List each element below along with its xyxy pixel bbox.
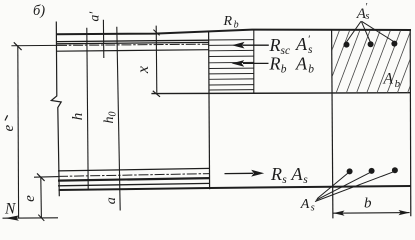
dimension line a' <box>102 20 104 58</box>
bottom rebar dot 3 <box>392 167 398 173</box>
top rebar bar line 1 <box>57 40 209 41</box>
top rebar bar line 2 <box>57 42 209 43</box>
top rebar dot 2 <box>368 41 374 47</box>
wire top edge of beam <box>56 30 411 35</box>
dimension b right arrow <box>399 210 410 215</box>
svg-text:A: A <box>300 197 310 212</box>
label Rb Ab <box>269 54 315 76</box>
svg-text:b: b <box>308 64 314 76</box>
svg-text:R: R <box>223 14 233 29</box>
force N baseline <box>3 217 59 219</box>
svg-text:N: N <box>4 201 17 218</box>
svg-text:s: s <box>311 203 315 214</box>
dimension line e vertical <box>40 177 43 218</box>
top rebar centroid dash-dot axis <box>11 44 57 46</box>
wire bottom edge of beam <box>59 186 412 190</box>
svg-text:A: A <box>295 34 308 54</box>
svg-text:A: A <box>291 164 304 184</box>
force arrow Rb Ab (left pointing) <box>232 60 269 67</box>
label Rs As <box>270 164 308 186</box>
section cut vertical line <box>209 31 210 190</box>
svg-text:R: R <box>270 164 282 184</box>
tick at top of e' <box>14 42 22 50</box>
svg-text:s: s <box>365 11 369 22</box>
svg-text:s: s <box>308 44 313 56</box>
svg-text:R: R <box>269 35 281 55</box>
bottom rebar dot 2 <box>369 168 375 174</box>
svg-text:e: e <box>22 195 38 202</box>
svg-text:A: A <box>295 54 308 74</box>
wire neutral axis depth line <box>151 92 411 95</box>
cross-section left edge <box>332 30 333 218</box>
force arrow Rsc A's (left pointing) <box>232 42 269 49</box>
cross-section right edge <box>409 30 412 216</box>
bottom rebar dot 1 <box>347 168 353 174</box>
svg-text:A: A <box>383 71 394 88</box>
svg-text:b: b <box>234 20 239 31</box>
bottom rebar bar line 4 <box>58 183 210 185</box>
force arrow Rs As (right pointing) <box>225 170 265 177</box>
dimension line x <box>155 26 158 93</box>
leader lines from As to bottom dots <box>315 172 394 202</box>
svg-text:h: h <box>70 113 86 121</box>
force N arrowhead <box>5 215 19 220</box>
top rebar dot 3 <box>391 41 397 47</box>
svg-text:a: a <box>104 197 119 204</box>
top rebar dot 1 <box>344 42 350 48</box>
top rebar bar line 3 <box>57 50 209 52</box>
beam left edge with break zigzag <box>51 22 61 197</box>
bottom rebar centroid dash-dot axis <box>58 174 210 177</box>
shelf line for e dimension <box>34 176 59 179</box>
svg-text:R: R <box>269 54 281 74</box>
svg-text:б): б) <box>33 3 45 19</box>
tick at top of e <box>37 173 45 181</box>
tick at bottom of x line <box>153 91 160 97</box>
dimension line e' vertical <box>17 46 20 218</box>
label As bottom <box>300 197 315 214</box>
tick at bottom of e <box>38 215 44 221</box>
bottom rebar bar line 1 <box>58 168 210 171</box>
dimension line h0 and a <box>117 27 120 211</box>
bottom rebar bar pair thick line <box>58 178 210 181</box>
svg-text:a′: a′ <box>87 11 102 22</box>
svg-text:b: b <box>364 196 372 212</box>
stress block Rb right edge <box>253 30 255 93</box>
svg-text:s: s <box>303 174 308 186</box>
leader lines from A's to top dots <box>346 21 393 42</box>
dimension b line <box>333 212 410 215</box>
dimension b left arrow <box>333 211 344 216</box>
svg-text:x: x <box>135 66 152 74</box>
svg-text:s: s <box>282 174 287 186</box>
svg-text:e: e <box>1 125 17 132</box>
stress block horizontal hatch <box>209 40 254 90</box>
label A's top <box>356 2 370 22</box>
compressed zone diagonal hatch <box>304 27 415 97</box>
label Ab in section <box>383 71 401 91</box>
svg-text:b: b <box>395 78 401 90</box>
dimension line h <box>87 28 88 190</box>
svg-text:b: b <box>281 64 287 76</box>
tick at top of x line <box>153 30 159 36</box>
label Rsc A's <box>269 34 314 58</box>
svg-text:sc: sc <box>281 45 291 57</box>
